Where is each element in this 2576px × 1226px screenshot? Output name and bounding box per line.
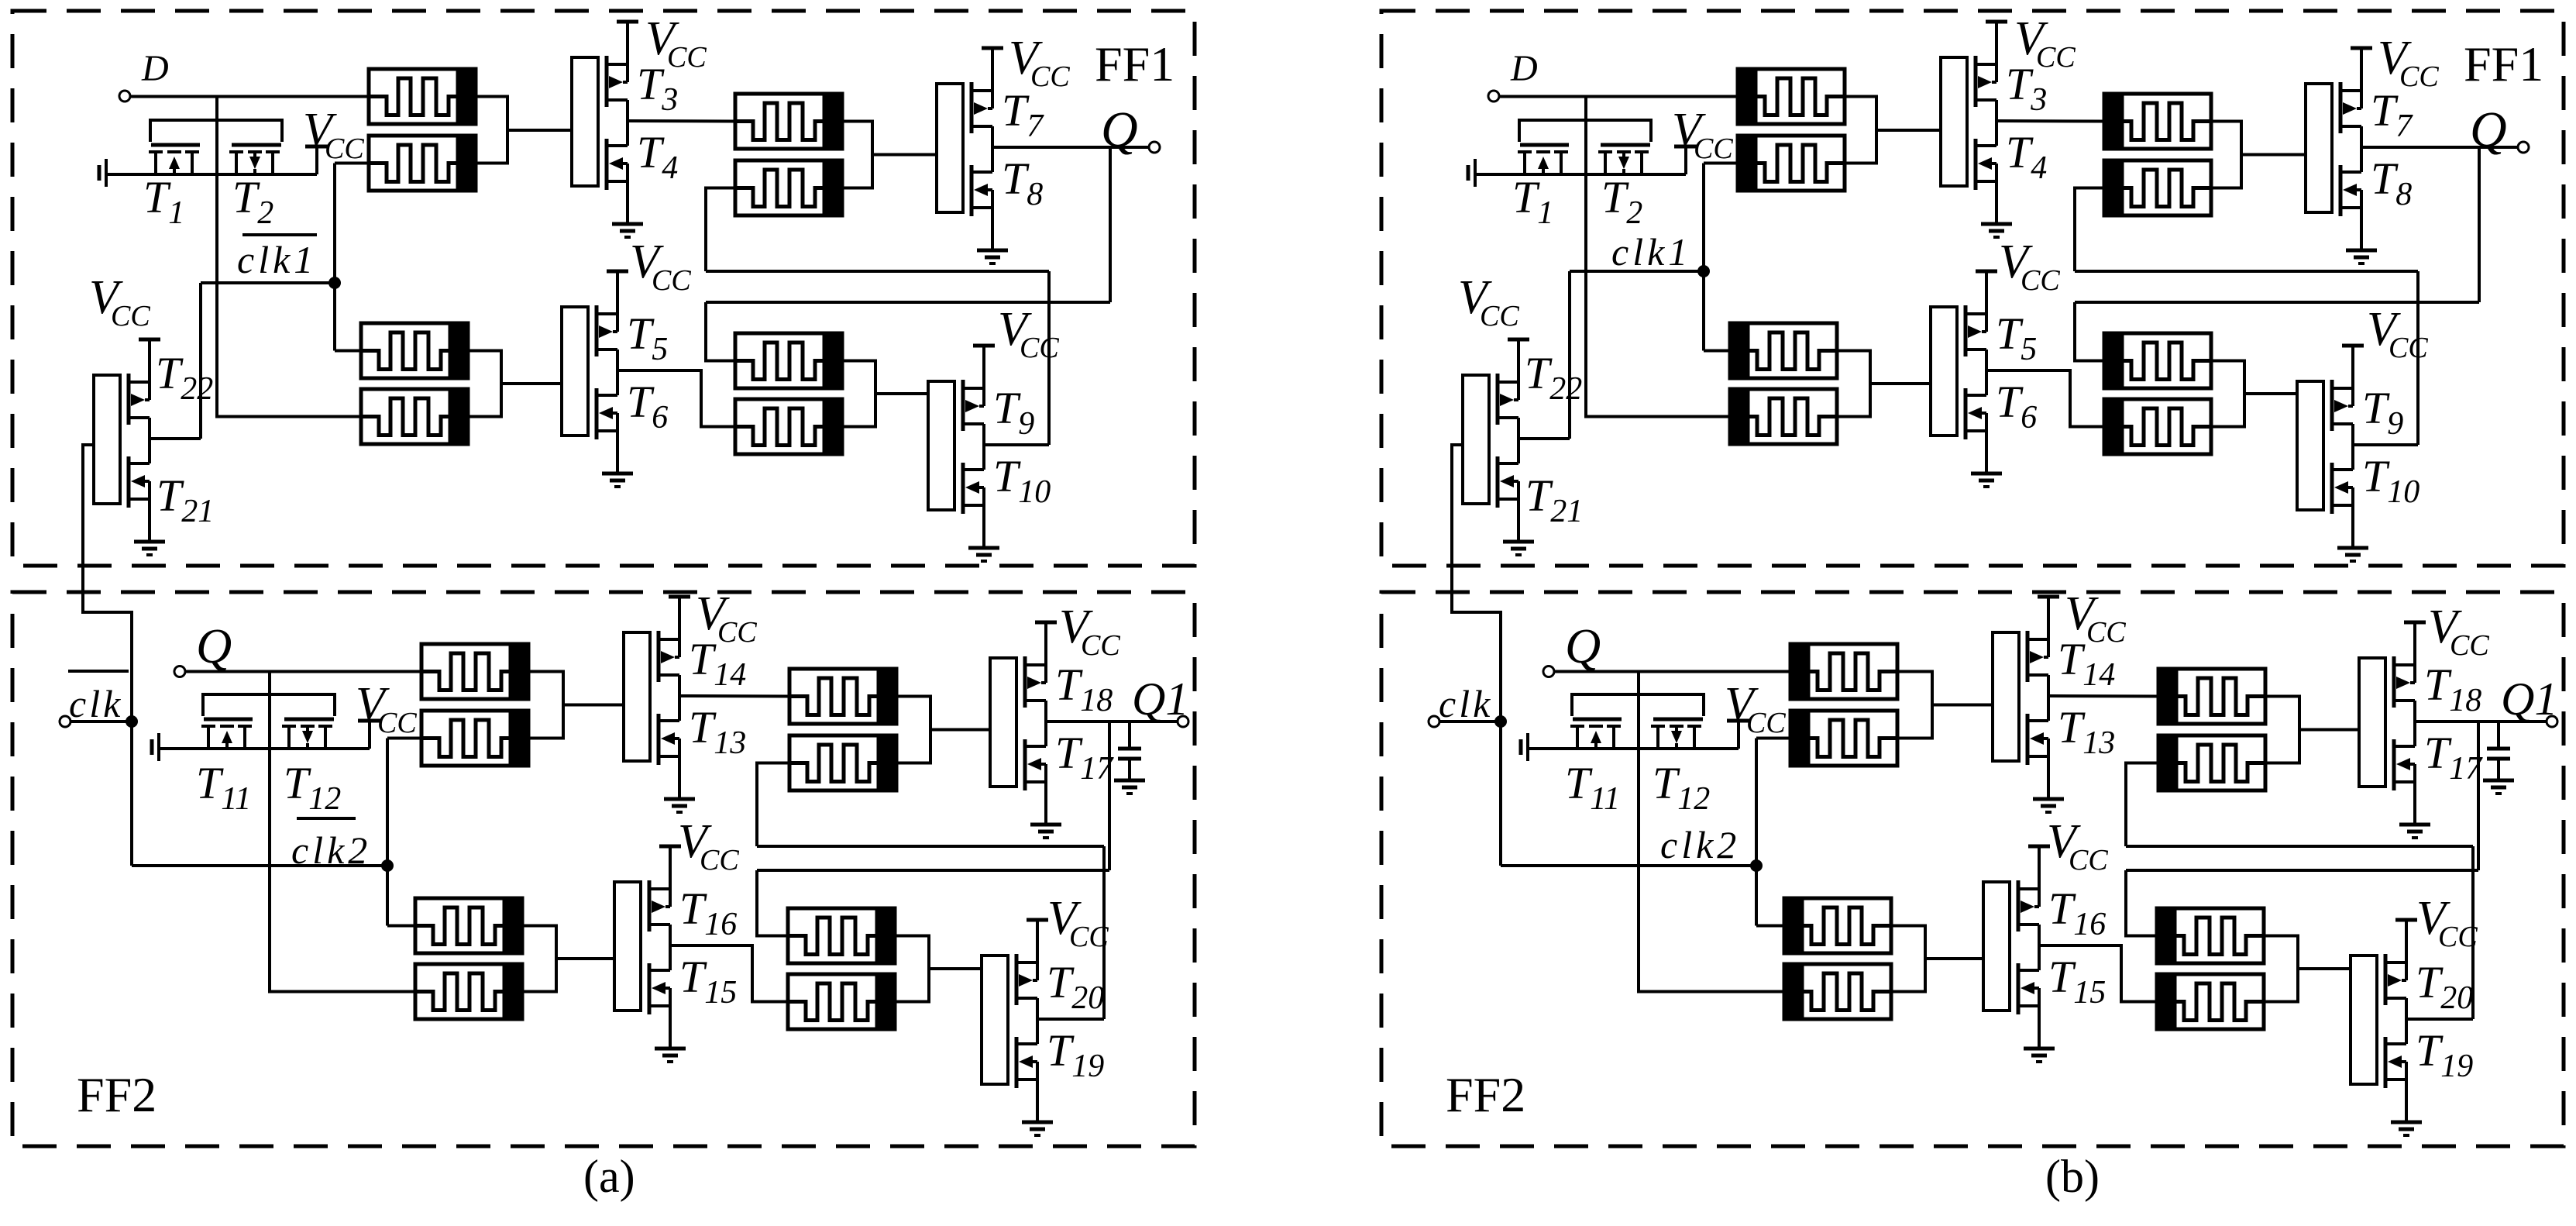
substrate terminal of T1 (a) [99,159,106,187]
wire T16/T15 output to M16 [2039,945,2157,1002]
wire Q input wire [1554,670,1790,673]
terminal Q input (a) [174,666,185,677]
power VCC of T14 (b) [2038,595,2059,599]
inverter input node (T22 (a)/T21 (a)) [94,375,120,504]
transistor T9 (b) (PMOS) [2332,346,2353,445]
power VCC of T7 (a) [982,46,1003,50]
wire M5/M6 junction [1837,351,1870,417]
inverter input node (T18 (b)/T17 (b)) [2359,658,2385,787]
inverter input node (T3 (a)/T4 (a)) [572,57,598,186]
svg-text:CC: CC [1480,300,1519,332]
pass-gate loop (T11 (b)/T12 (b)) [1572,694,1704,716]
wire clk1 to M5 [335,350,361,353]
power VCC of T18 (b) [2404,621,2426,625]
inverter input node (T16 (a)/T15 (a)) [614,882,641,1011]
svg-text:D: D [1510,48,1538,89]
wire D to pass gates [1584,97,1587,177]
ground of T13 (a) [664,799,695,812]
power VCC of T12 (b) [1727,721,1750,749]
memristor M3 (a) [735,94,842,149]
source wire of T11 (b)/T12 (b) [1528,747,1739,750]
memristor M12 (a) [789,735,896,790]
node clk node (b) [1494,715,1507,728]
wire junction to T14/T13 input [1932,704,1993,707]
transistor T15 (a) (NMOS) [649,945,670,1049]
wire T14/T13 output to M11 [679,694,789,698]
svg-text:CC: CC [1030,60,1070,93]
transistor T11 (b) (NMOS) [1570,719,1622,749]
wire junction to T20/T19 input [929,967,982,970]
memristor M10 (a) [421,711,528,766]
svg-text:clk2: clk2 [291,828,371,872]
transistor T8 (a) (NMOS) [972,147,992,250]
terminal D (a) [119,91,130,102]
source wire of T1 (b)/T2 (b) [1475,173,1686,176]
transistor T14 (a) (PMOS) [659,597,679,696]
power VCC of T22 (a) [139,338,160,342]
svg-text:CC: CC [700,844,739,876]
transistor T7 (a) (PMOS) [972,48,992,147]
memristor M2 (b) [1738,136,1845,191]
wire clk input [71,720,132,723]
wire M3/M4 junction [2211,122,2241,188]
svg-text:clk: clk [1439,682,1493,725]
wire T3/T4 output to M3 [628,119,735,123]
wire Q1 feedback bus [2126,869,2478,872]
wire M1/M2 junction [476,97,507,164]
inverter input node (T9 (b)/T10 (b)) [2297,381,2323,510]
memristor M14 (b) [1784,964,1891,1019]
wire clk to T22/T21 input [83,445,132,866]
power VCC of T16 (a) [659,845,681,849]
transistor T15 (b) (NMOS) [2018,945,2039,1049]
ground of T21 (b) [1503,542,1534,555]
wire clk1 vertical [333,164,336,351]
ground of T13 (b) [2033,799,2064,812]
wire T9/T10 output [984,443,1049,446]
svg-text:FF1: FF1 [1095,36,1175,91]
inverter input node (T7 (a)/T8 (a)) [937,84,963,212]
wire junction to T16/T15 input [1925,957,1983,960]
transistor T22 (b) (PMOS) [1498,339,1518,439]
wire T14/T13 output to M11 [2048,694,2158,698]
ground of T8 (b) [2346,250,2377,263]
inverter input node (T7 (b)/T8 (b)) [2306,84,2332,212]
terminal Q1 (b) [2547,716,2557,727]
wire junction to T5/T6 input [501,382,562,385]
terminal clk (a) [60,716,71,727]
svg-text:Q1: Q1 [1132,673,1188,725]
svg-text:FF2: FF2 [1446,1067,1525,1122]
ground of T6 (a) [602,474,633,487]
transistor T16 (a) (PMOS) [649,846,670,945]
wire T20/T19 feedback bus [757,845,1104,848]
power VCC of T12 (a) [358,721,381,749]
svg-text:CC: CC [2036,41,2076,74]
svg-text:Q: Q [196,618,232,673]
wire M15/M16 junction [2264,936,2298,1002]
memristor M11 (a) [789,669,896,724]
wire T9/T10 output rise [1047,271,1051,445]
ground of T10 (b) [2337,548,2368,561]
svg-text:CC: CC [652,264,691,297]
svg-text:CC: CC [2399,60,2439,93]
wire clk1 to M2 [1704,162,1738,165]
ground of T21 (a) [134,542,165,555]
power VCC of T14 (a) [669,595,690,599]
node clk1 (b) [1697,265,1710,277]
source wire of T1 (a)/T2 (a) [106,173,317,176]
transistor T4 (a) (NMOS) [607,121,628,224]
transistor T8 (b) (NMOS) [2340,147,2361,250]
memristor M7 (a) [735,333,842,388]
transistor T20 (a) (PMOS) [1016,920,1037,1019]
ground of T8 (a) [977,250,1008,263]
memristor M1 (b) [1738,69,1845,124]
wire M11/M12 junction [2265,697,2299,763]
transistor T13 (b) (NMOS) [2027,696,2048,799]
power VCC of T9 (b) [2342,344,2364,348]
wire M5/M6 junction [468,351,501,417]
wire clk2 to M10 [1756,737,1790,740]
wire Q feedback drop [1109,147,1112,302]
wire clk1 bus [201,281,335,284]
wire Q1 output [1046,720,1178,723]
label clk overbar [68,670,129,673]
svg-text:CC: CC [111,300,150,332]
svg-text:CC: CC [2450,629,2489,662]
wire M1/M2 junction [1845,97,1876,164]
wire Q feedback bus [2075,301,2479,304]
wire T16/T15 output to M16 [670,945,788,1002]
svg-text:Q: Q [2470,102,2507,158]
svg-text:Q: Q [1101,102,1138,158]
memristor M9 (b) [1790,644,1897,699]
wire pass node to M6 [1586,174,1730,417]
wire Q input wire [185,670,421,673]
transistor T5 (b) (PMOS) [1966,271,1986,370]
power VCC of T5 (b) [1976,270,1997,274]
transistor T22 (a) (PMOS) [129,339,150,439]
wire Q output [992,146,1149,149]
wire M9/M10 junction [528,672,563,739]
memristor M15 (a) [788,908,895,963]
transistor T12 (a) (PMOS) [282,719,334,749]
svg-text:CC: CC [667,41,707,74]
memristor M5 (b) [1730,323,1837,378]
power VCC of T5 (a) [607,270,628,274]
ground of T4 (a) [612,224,643,237]
transistor T4 (b) (NMOS) [1976,121,1996,224]
terminal D (b) [1488,91,1499,102]
wire junction to T3/T4 input [1876,129,1941,132]
inverter input node (T3 (b)/T4 (b)) [1941,57,1967,186]
node clk1 (a) [328,277,341,289]
wire T3/T4 output to M3 [1996,119,2104,123]
wire feedback to M12 [757,763,789,847]
wire T22/T21 output to clk1 [1568,271,1571,439]
memristor M8 (a) [735,399,842,454]
inverter input node (T9 (a)/T10 (a)) [928,381,954,510]
transistor T10 (b) (NMOS) [2332,445,2353,548]
ground of T19 (a) [1022,1122,1053,1135]
wire T9/T10 feedback bus [2075,270,2418,273]
ground of T4 (b) [1981,224,2012,237]
transistor T19 (b) (NMOS) [2385,1019,2406,1122]
memristor M14 (a) [415,964,522,1019]
terminal Q (a) [1149,142,1160,153]
dashed boundary FF2 (b) [1381,592,2564,1146]
memristor M4 (b) [2104,160,2211,215]
terminal Q (b) [2518,142,2529,153]
wire Q1 feedback drop [2477,721,2480,870]
svg-text:clk1: clk1 [1611,230,1691,274]
wire junction to T7/T8 input [2241,153,2306,157]
source wire of T11 (a)/T12 (a) [159,747,370,750]
power VCC of T22 (b) [1508,338,1529,342]
substrate terminal of T11 (b) [1521,733,1528,761]
memristor M9 (a) [421,644,528,699]
wire junction to T7/T8 input [872,153,937,157]
svg-text:Q: Q [1565,618,1601,673]
wire Q1 feedback drop [1108,721,1111,870]
wire clk1 vertical [1702,164,1705,351]
transistor T5 (a) (PMOS) [597,271,617,370]
transistor T18 (a) (PMOS) [1025,622,1046,721]
transistor T3 (a) (PMOS) [607,22,628,121]
wire Q1 feedback to M15 [2126,870,2157,936]
inverter input node (T5 (a)/T6 (a)) [562,307,588,436]
power VCC of T2 (b) [1674,146,1697,174]
wire T5/T6 output to M8 [617,370,735,427]
wire M9/M10 junction [1897,672,1932,739]
svg-text:CC: CC [2021,264,2060,297]
wire T20/T19 output [1037,1018,1104,1021]
svg-text:CC: CC [325,133,364,165]
wire clk2 to M10 [387,737,421,740]
wire clk1 bus [1570,270,1704,273]
svg-text:(a): (a) [583,1151,635,1202]
wire pass node to M14 [1639,749,1784,992]
memristor M10 (b) [1790,711,1897,766]
power VCC of T9 (a) [973,344,995,348]
svg-text:CC: CC [717,616,757,649]
inverter input node (T20 (a)/T19 (a)) [982,956,1008,1084]
transistor T21 (b) (NMOS) [1498,439,1518,542]
power VCC of T16 (b) [2028,845,2050,849]
terminal Q input (b) [1543,666,1554,677]
transistor T9 (a) (PMOS) [963,346,984,445]
wire pass node to M6 [217,174,361,417]
wire M11/M12 junction [896,697,930,763]
svg-text:Q1: Q1 [2501,673,2557,725]
ground of T17 (a) [1030,825,1061,838]
transistor T17 (b) (NMOS) [2394,721,2415,825]
wire D input [1499,95,1738,98]
wire clk2 to M13 [387,925,415,928]
memristor M6 (a) [361,389,468,444]
memristor M16 (a) [788,974,895,1029]
inverter input node (T16 (b)/T15 (b)) [1983,882,2010,1011]
inverter input node (T20 (b)/T19 (b)) [2351,956,2377,1084]
transistor T16 (b) (PMOS) [2018,846,2039,945]
transistor T2 (a) (PMOS) [229,145,281,174]
wire Q1 feedback bus [757,869,1109,872]
inverter input node (T5 (b)/T6 (b)) [1931,307,1957,436]
wire Q feedback to M7 [706,302,735,361]
svg-text:clk1: clk1 [237,238,317,281]
wire clk2 bus [1501,864,1756,867]
transistor T13 (a) (NMOS) [659,696,679,799]
terminal clk (b) [1429,716,1439,727]
transistor T6 (b) (NMOS) [1966,370,1986,474]
wire clk1 to M5 [1704,350,1730,353]
wire D input [130,95,369,98]
wire junction to T5/T6 input [1870,382,1931,385]
wire T20/T19 output rise [2471,846,2475,1019]
wire junction to T18/T17 input [2299,728,2359,732]
memristor M6 (b) [1730,389,1837,444]
inverter input node (T14 (a)/T13 (a)) [624,632,650,761]
wire feedback to M4 [706,188,735,272]
power VCC of T7 (b) [2351,46,2372,50]
svg-text:FF2: FF2 [77,1067,156,1122]
svg-text:CC: CC [1694,133,1733,165]
transistor T6 (a) (NMOS) [597,370,617,474]
transistor T17 (a) (NMOS) [1025,721,1046,825]
memristor M12 (b) [2158,735,2265,790]
svg-text:clk2: clk2 [1660,823,1740,866]
ground of capacitor (b) [2483,780,2514,794]
memristor M4 (a) [735,160,842,215]
transistor T10 (a) (NMOS) [963,445,984,548]
wire T22/T21 output to clk1 [199,283,202,439]
wire T22/T21 output [150,437,201,440]
wire Q1 feedback to M15 [757,870,788,936]
substrate terminal of T11 (a) [152,733,159,761]
inverter input node (T22 (b)/T21 (b)) [1463,375,1489,504]
wire T20/T19 feedback bus [2126,845,2473,848]
wire junction to T9/T10 input [2244,392,2297,395]
power VCC of T2 (a) [305,146,328,174]
terminal Q1 (a) [1178,716,1188,727]
transistor T21 (a) (NMOS) [129,439,150,542]
pass-gate loop (T1 (a)/T2 (a)) [150,120,282,142]
memristor M13 (b) [1784,898,1891,953]
wire clk2 to M13 [1756,925,1784,928]
power VCC of T3 (b) [1986,20,2007,24]
transistor T12 (b) (PMOS) [1651,719,1703,749]
wire T9/T10 output [2353,443,2418,446]
power VCC of T3 (a) [617,20,638,24]
wire Q feedback drop [2478,147,2481,302]
svg-text:CC: CC [377,707,417,739]
wire pass node to M14 [270,749,415,992]
wire T9/T10 feedback bus [706,270,1049,273]
power VCC of T20 (a) [1027,918,1048,922]
wire Q1 output [2415,720,2547,723]
label clk1 overbar [242,233,317,236]
svg-text:(b): (b) [2045,1151,2100,1202]
wire T20/T19 output [2406,1018,2473,1021]
wire Q feedback to M7 [2075,302,2104,361]
transistor T1 (a) (NMOS) [149,145,200,174]
ground of T6 (b) [1971,474,2002,487]
wire T20/T19 output rise [1102,846,1106,1019]
wire junction to T3/T4 input [507,129,572,132]
dashed boundary FF2 (a) [12,592,1195,1146]
ground of T10 (a) [968,548,999,561]
wire clk to T22/T21 input [1452,445,1501,866]
ground of T15 (b) [2024,1049,2055,1062]
transistor T19 (a) (NMOS) [1016,1019,1037,1122]
node clk node (a) [126,715,138,728]
node clk2 (b) [1750,859,1763,872]
transistor T3 (b) (PMOS) [1976,22,1996,121]
memristor M8 (b) [2104,399,2211,454]
memristor M1 (a) [369,69,476,124]
svg-text:CC: CC [1020,332,1059,364]
svg-text:CC: CC [2069,844,2108,876]
wire clk2 vertical [386,739,389,926]
memristor M11 (b) [2158,669,2265,724]
substrate terminal of T1 (b) [1468,159,1475,187]
dashed boundary FF1 (b) [1381,11,2564,566]
dashed boundary FF1 (a) [12,11,1195,566]
wire clk2 vertical [1755,739,1758,926]
memristor M7 (b) [2104,333,2211,388]
wire clk1 to M2 [335,162,369,165]
ground of T15 (a) [655,1049,686,1062]
wire clk2 bus [132,864,387,867]
wire junction to T16/T15 input [556,957,614,960]
memristor M3 (b) [2104,94,2211,149]
transistor T1 (b) (NMOS) [1518,145,1569,174]
wire M7/M8 junction [2211,361,2244,427]
memristor M15 (b) [2157,908,2264,963]
svg-text:CC: CC [2086,616,2126,649]
power VCC of T18 (a) [1035,621,1057,625]
memristor M2 (a) [369,136,476,191]
svg-text:CC: CC [1081,629,1120,662]
label clk2 overbar [297,817,356,820]
wire junction to T14/T13 input [563,704,624,707]
ground of T17 (b) [2399,825,2430,838]
wire Q output [2361,146,2518,149]
power VCC of T20 (b) [2395,918,2417,922]
wire T9/T10 output rise [2416,271,2420,445]
wire M13/M14 junction [522,926,556,992]
pass-gate loop (T1 (b)/T2 (b)) [1519,120,1651,142]
wire D to pass gates [215,97,218,177]
wire Q to pass gates [268,672,271,751]
transistor T18 (b) (PMOS) [2394,622,2415,721]
wire clk input [1439,720,1501,723]
wire T22/T21 output [1519,437,1570,440]
inverter input node (T18 (a)/T17 (a)) [990,658,1016,787]
wire Q feedback bus [706,301,1110,304]
wire junction to T9/T10 input [875,392,928,395]
inverter input node (T14 (b)/T13 (b)) [1993,632,2019,761]
wire feedback to M4 [2075,188,2104,272]
svg-text:FF1: FF1 [2464,36,2543,91]
transistor T20 (b) (PMOS) [2385,920,2406,1019]
wire Q to pass gates [1637,672,1640,751]
svg-text:CC: CC [1746,707,1786,739]
wire M13/M14 junction [1891,926,1925,992]
capacitor on Q1 (a) [1118,721,1141,780]
wire feedback to M12 [2126,763,2158,847]
